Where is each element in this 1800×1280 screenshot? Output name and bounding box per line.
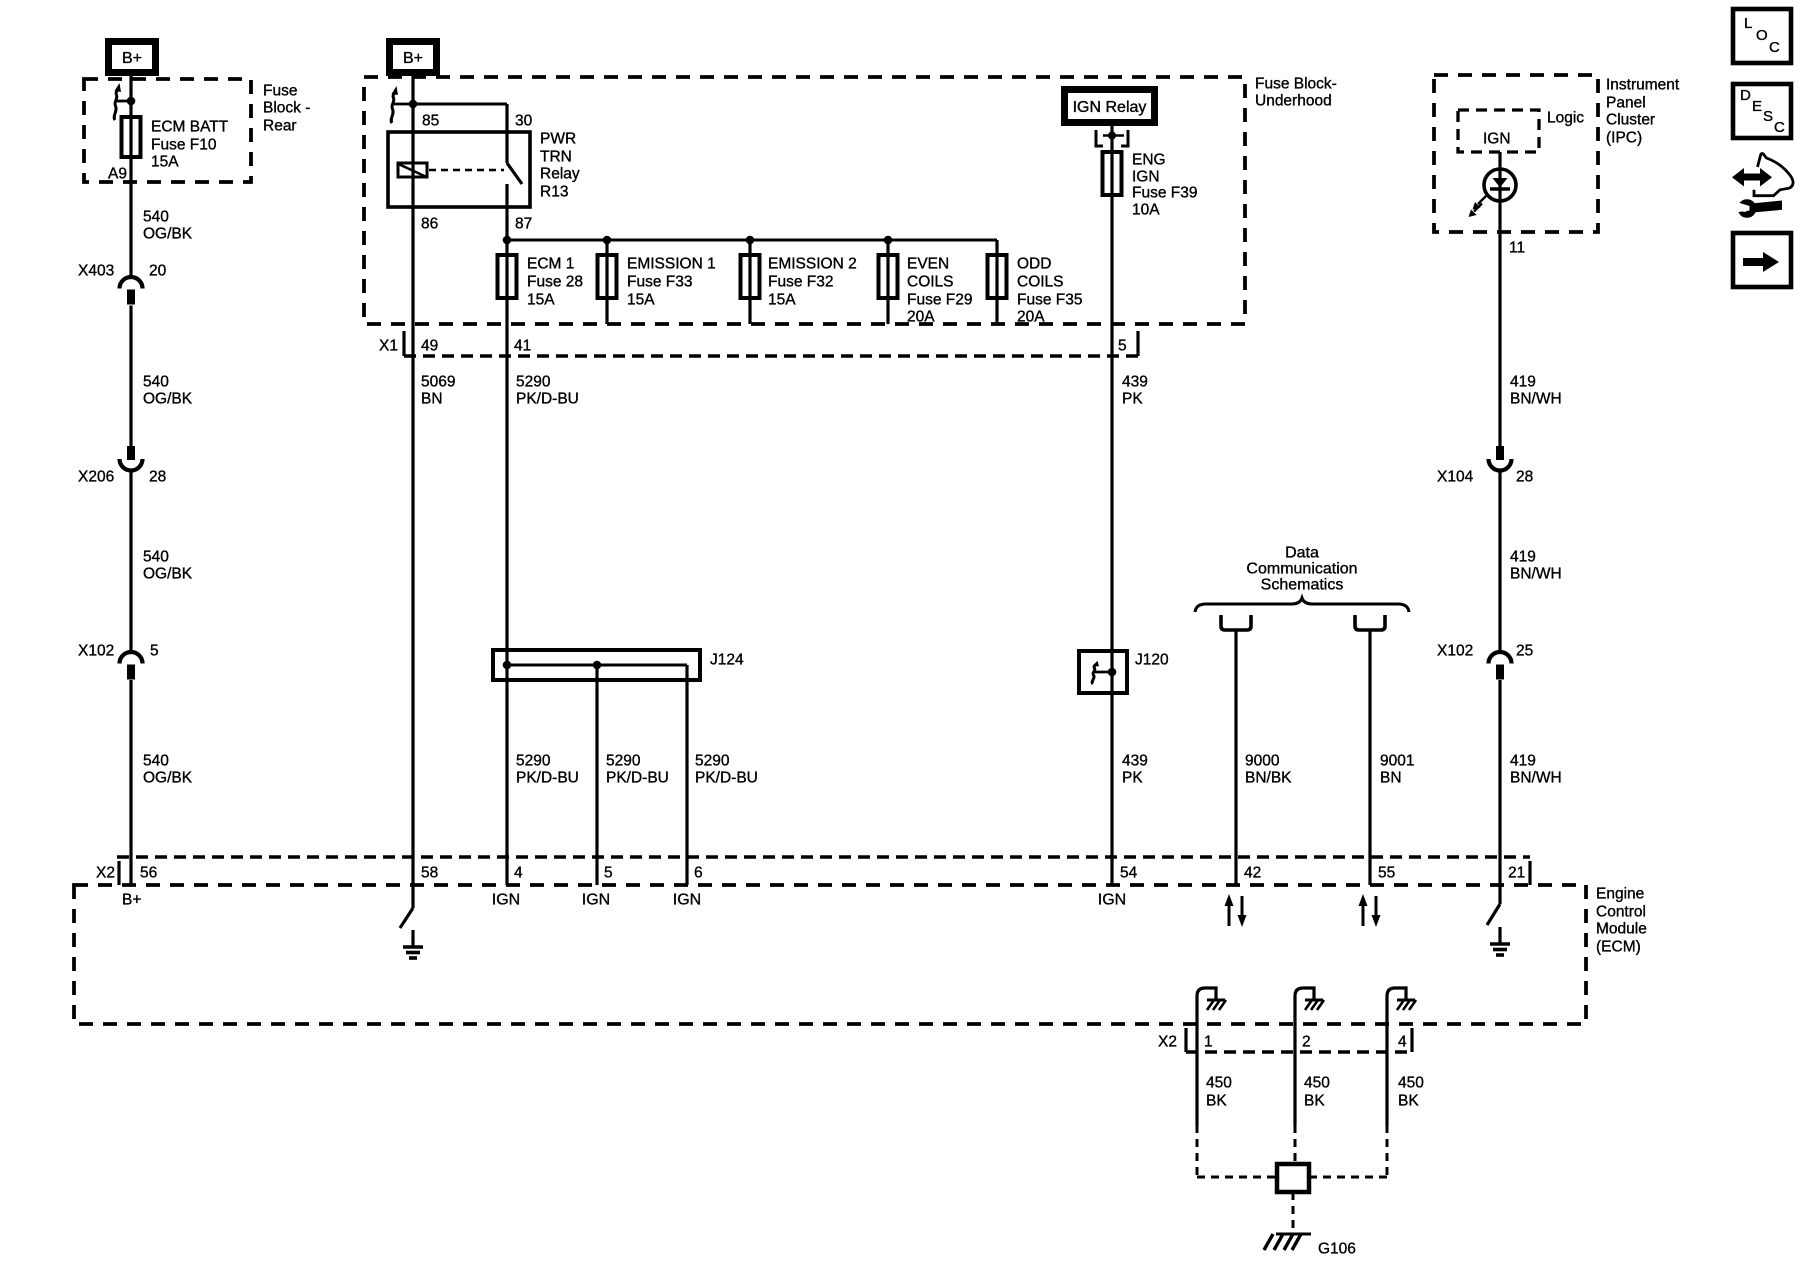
svg-text:EMISSION 1: EMISSION 1 — [627, 255, 716, 272]
svg-text:540: 540 — [143, 208, 169, 225]
svg-text:BN: BN — [1380, 769, 1402, 786]
svg-text:5290: 5290 — [695, 752, 730, 769]
svg-text:450: 450 — [1304, 1074, 1330, 1091]
svg-text:BN/WH: BN/WH — [1510, 390, 1562, 407]
svg-text:5: 5 — [150, 642, 159, 659]
svg-text:X2: X2 — [1158, 1033, 1177, 1050]
svg-text:Instrument: Instrument — [1606, 76, 1680, 93]
svg-text:54: 54 — [1120, 864, 1138, 881]
svg-text:S: S — [1763, 108, 1773, 125]
svg-text:20A: 20A — [907, 308, 935, 325]
svg-text:B+: B+ — [122, 50, 142, 67]
svg-text:IGN: IGN — [673, 892, 701, 909]
svg-text:41: 41 — [514, 337, 531, 354]
svg-text:BK: BK — [1206, 1092, 1227, 1109]
svg-text:Fuse: Fuse — [263, 82, 297, 99]
svg-text:49: 49 — [421, 337, 438, 354]
svg-text:IGN Relay: IGN Relay — [1073, 99, 1147, 116]
svg-text:OG/BK: OG/BK — [143, 565, 193, 582]
svg-text:Rear: Rear — [263, 117, 297, 134]
svg-text:X104: X104 — [1437, 468, 1474, 485]
svg-text:PWR: PWR — [540, 130, 576, 147]
svg-text:X1: X1 — [379, 337, 398, 354]
svg-text:Engine: Engine — [1596, 885, 1644, 902]
svg-text:BK: BK — [1398, 1092, 1419, 1109]
svg-text:5290: 5290 — [516, 752, 551, 769]
svg-text:J124: J124 — [710, 651, 744, 668]
svg-text:56: 56 — [140, 864, 157, 881]
svg-text:Module: Module — [1596, 920, 1647, 937]
svg-text:TRN: TRN — [540, 148, 572, 165]
svg-text:ODD: ODD — [1017, 255, 1051, 272]
svg-text:B+: B+ — [403, 50, 423, 67]
svg-text:ECM 1: ECM 1 — [527, 255, 574, 272]
svg-text:Logic: Logic — [1547, 109, 1584, 126]
svg-text:ENG: ENG — [1132, 151, 1166, 168]
svg-text:540: 540 — [143, 373, 169, 390]
svg-text:IGN: IGN — [1098, 892, 1126, 909]
svg-text:BK: BK — [1304, 1092, 1325, 1109]
svg-text:J120: J120 — [1135, 651, 1169, 668]
svg-text:OG/BK: OG/BK — [143, 225, 193, 242]
svg-text:B+: B+ — [122, 891, 141, 908]
svg-text:419: 419 — [1510, 548, 1536, 565]
svg-text:Communication: Communication — [1246, 561, 1357, 578]
svg-text:C: C — [1769, 39, 1780, 56]
svg-text:PK/D-BU: PK/D-BU — [516, 769, 579, 786]
svg-text:IGN: IGN — [1132, 168, 1160, 185]
svg-text:PK/D-BU: PK/D-BU — [606, 769, 669, 786]
svg-text:BN/WH: BN/WH — [1510, 769, 1562, 786]
svg-text:450: 450 — [1398, 1074, 1424, 1091]
svg-text:BN/BK: BN/BK — [1245, 769, 1292, 786]
svg-text:R13: R13 — [540, 183, 568, 200]
svg-text:42: 42 — [1244, 864, 1261, 881]
svg-text:BN/WH: BN/WH — [1510, 565, 1562, 582]
svg-text:ECM BATT: ECM BATT — [151, 118, 229, 135]
svg-text:BN: BN — [421, 390, 443, 407]
svg-text:C: C — [1774, 119, 1785, 136]
svg-text:Fuse F32: Fuse F32 — [768, 273, 833, 290]
svg-text:Underhood: Underhood — [1255, 92, 1332, 109]
svg-text:X102: X102 — [78, 642, 114, 659]
svg-text:87: 87 — [515, 215, 532, 232]
svg-text:4: 4 — [514, 864, 523, 881]
svg-text:1: 1 — [1204, 1033, 1213, 1050]
svg-text:(IPC): (IPC) — [1606, 129, 1642, 146]
svg-text:11: 11 — [1509, 239, 1525, 256]
svg-text:28: 28 — [1516, 468, 1533, 485]
svg-text:PK: PK — [1122, 769, 1143, 786]
svg-text:O: O — [1756, 27, 1768, 44]
svg-text:Data: Data — [1285, 545, 1319, 562]
svg-text:E: E — [1752, 98, 1762, 115]
svg-text:Fuse F10: Fuse F10 — [151, 136, 217, 153]
svg-text:X102: X102 — [1437, 642, 1473, 659]
svg-text:G106: G106 — [1318, 1240, 1356, 1257]
svg-text:Fuse F33: Fuse F33 — [627, 273, 692, 290]
svg-text:Fuse F29: Fuse F29 — [907, 291, 972, 308]
svg-text:Relay: Relay — [540, 165, 580, 182]
svg-text:439: 439 — [1122, 752, 1148, 769]
svg-text:30: 30 — [515, 112, 533, 129]
svg-text:A9: A9 — [108, 165, 127, 182]
svg-text:28: 28 — [149, 468, 166, 485]
svg-text:Fuse F35: Fuse F35 — [1017, 291, 1082, 308]
svg-text:9001: 9001 — [1380, 752, 1414, 769]
svg-text:IGN: IGN — [492, 892, 520, 909]
svg-text:5: 5 — [604, 864, 613, 881]
svg-text:Block -: Block - — [263, 99, 310, 116]
svg-text:9000: 9000 — [1245, 752, 1280, 769]
svg-text:OG/BK: OG/BK — [143, 769, 193, 786]
svg-text:10A: 10A — [1132, 201, 1160, 218]
svg-text:COILS: COILS — [907, 273, 954, 290]
svg-text:PK/D-BU: PK/D-BU — [516, 390, 579, 407]
svg-text:D: D — [1740, 87, 1751, 104]
svg-text:PK/D-BU: PK/D-BU — [695, 769, 758, 786]
svg-text:L: L — [1744, 15, 1752, 32]
svg-text:Fuse 28: Fuse 28 — [527, 273, 583, 290]
svg-text:X2: X2 — [96, 864, 115, 881]
svg-text:25: 25 — [1516, 642, 1533, 659]
svg-text:419: 419 — [1510, 752, 1536, 769]
svg-text:15A: 15A — [151, 153, 179, 170]
svg-text:2: 2 — [1302, 1033, 1311, 1050]
svg-text:COILS: COILS — [1017, 273, 1064, 290]
svg-text:Panel: Panel — [1606, 94, 1646, 111]
svg-text:(ECM): (ECM) — [1596, 938, 1641, 955]
svg-text:OG/BK: OG/BK — [143, 390, 193, 407]
svg-text:85: 85 — [422, 112, 439, 129]
svg-text:5: 5 — [1118, 337, 1127, 354]
svg-text:Schematics: Schematics — [1261, 577, 1344, 594]
svg-text:PK: PK — [1122, 390, 1143, 407]
svg-text:Fuse F39: Fuse F39 — [1132, 184, 1197, 201]
svg-text:540: 540 — [143, 752, 169, 769]
svg-text:Cluster: Cluster — [1606, 111, 1655, 128]
svg-text:55: 55 — [1378, 864, 1395, 881]
svg-text:58: 58 — [421, 864, 438, 881]
svg-text:4: 4 — [1398, 1033, 1407, 1050]
svg-text:EMISSION 2: EMISSION 2 — [768, 255, 857, 272]
svg-text:IGN: IGN — [1483, 130, 1511, 147]
svg-text:86: 86 — [421, 215, 438, 232]
svg-text:5290: 5290 — [516, 373, 551, 390]
svg-text:Control: Control — [1596, 903, 1646, 920]
svg-text:15A: 15A — [527, 291, 555, 308]
svg-text:5069: 5069 — [421, 373, 455, 390]
svg-text:15A: 15A — [768, 291, 796, 308]
svg-text:20A: 20A — [1017, 308, 1045, 325]
svg-text:IGN: IGN — [582, 892, 610, 909]
svg-text:X206: X206 — [78, 468, 114, 485]
svg-text:21: 21 — [1508, 864, 1525, 881]
svg-text:5290: 5290 — [606, 752, 641, 769]
svg-text:6: 6 — [694, 864, 703, 881]
svg-text:EVEN: EVEN — [907, 255, 949, 272]
svg-text:439: 439 — [1122, 373, 1148, 390]
svg-text:Fuse Block-: Fuse Block- — [1255, 75, 1337, 92]
svg-text:15A: 15A — [627, 291, 655, 308]
svg-text:450: 450 — [1206, 1074, 1232, 1091]
svg-text:20: 20 — [149, 262, 167, 279]
svg-text:540: 540 — [143, 548, 169, 565]
svg-text:419: 419 — [1510, 373, 1536, 390]
svg-text:X403: X403 — [78, 262, 114, 279]
